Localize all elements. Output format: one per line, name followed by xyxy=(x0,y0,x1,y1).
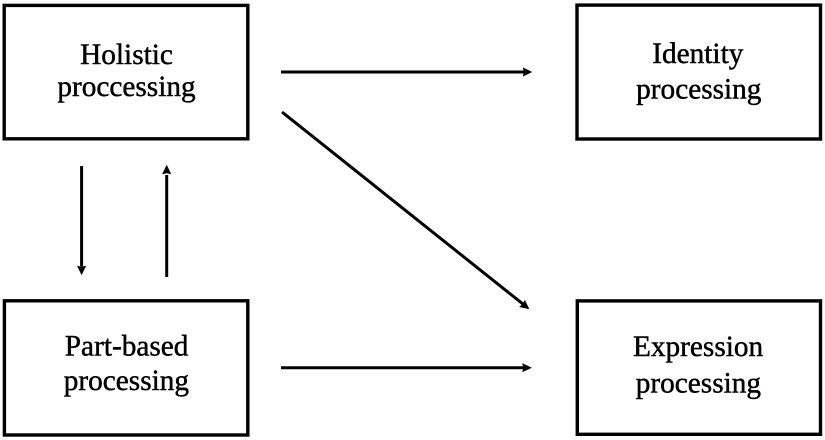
svg-text:processing: processing xyxy=(636,74,762,106)
svg-text:Expression: Expression xyxy=(633,331,764,363)
svg-text:processing: processing xyxy=(636,367,762,399)
svg-text:processing: processing xyxy=(64,365,190,397)
svg-text:Identity: Identity xyxy=(652,38,743,70)
svg-text:Holistic: Holistic xyxy=(80,39,173,71)
svg-text:Part-based: Part-based xyxy=(65,331,189,363)
svg-text:proccessing: proccessing xyxy=(57,71,196,103)
